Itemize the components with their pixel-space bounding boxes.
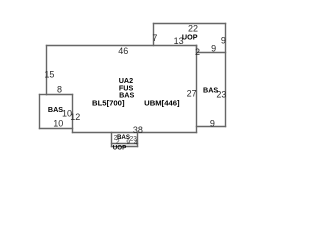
svg-text:7: 7 bbox=[152, 33, 157, 43]
left BAS wing top edge bbox=[40, 94, 47, 96]
svg-text:9: 9 bbox=[211, 44, 216, 54]
top UOP porch left edge (7) bbox=[153, 24, 155, 46]
svg-text:10: 10 bbox=[53, 118, 63, 128]
svg-text:BL5[700]: BL5[700] bbox=[92, 98, 125, 107]
bottom UOP porch bottom edge bbox=[112, 146, 138, 148]
bottom BAS stoop left edge bbox=[111, 133, 113, 147]
left BAS wing bottom edge (10) bbox=[40, 128, 73, 130]
svg-text:12: 12 bbox=[70, 112, 80, 122]
main building step edge (8) bbox=[47, 94, 73, 96]
svg-text:BAS: BAS bbox=[203, 85, 218, 94]
main building bottom edge (38) bbox=[73, 132, 197, 134]
svg-text:UOP: UOP bbox=[182, 33, 198, 42]
right outer edge (UOP 9 + BAS 23) bbox=[225, 24, 227, 127]
main building right edge (27) bbox=[196, 46, 198, 133]
svg-text:9: 9 bbox=[126, 139, 130, 146]
left BAS wing left edge bbox=[39, 95, 41, 129]
svg-text:4: 4 bbox=[134, 140, 138, 147]
main building left edge (15) bbox=[46, 46, 48, 95]
right BAS column bottom edge (9) bbox=[197, 126, 226, 128]
svg-text:UBM[446]: UBM[446] bbox=[144, 98, 180, 107]
svg-text:9: 9 bbox=[210, 119, 215, 129]
right BAS column step (2) bbox=[196, 46, 198, 53]
svg-text:46: 46 bbox=[118, 46, 128, 56]
top UOP porch top edge (22) bbox=[154, 23, 226, 25]
svg-text:9: 9 bbox=[221, 36, 226, 46]
svg-text:8: 8 bbox=[57, 85, 62, 95]
svg-text:BAS: BAS bbox=[48, 105, 63, 114]
svg-text:2: 2 bbox=[116, 139, 120, 146]
bottom BAS stoop bottom edge bbox=[112, 143, 138, 145]
svg-text:15: 15 bbox=[44, 69, 54, 79]
main building lower-left edge (12) bbox=[72, 95, 74, 133]
svg-text:2: 2 bbox=[195, 47, 200, 57]
svg-text:27: 27 bbox=[187, 89, 197, 99]
svg-text:38: 38 bbox=[133, 125, 143, 135]
bottom BAS stoop right edge bbox=[137, 133, 139, 147]
right BAS column top edge (9) bbox=[197, 52, 226, 54]
main building top edge bbox=[47, 45, 197, 47]
